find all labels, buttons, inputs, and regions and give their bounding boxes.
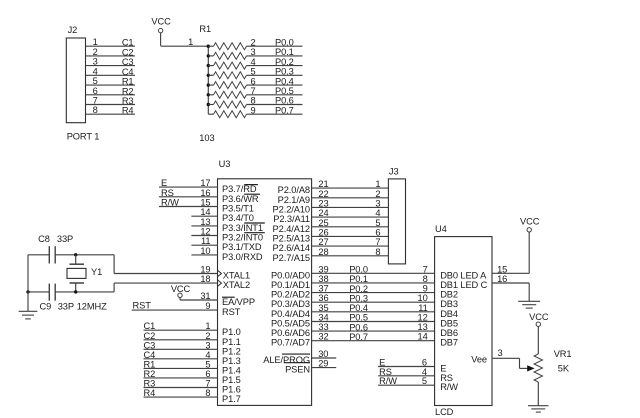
svg-text:5: 5 — [93, 76, 98, 86]
svg-text:P0.3/AD3: P0.3/AD3 — [271, 299, 310, 309]
svg-text:P1.6: P1.6 — [222, 385, 241, 395]
U3 pin 2 P1.1 — [144, 331, 241, 347]
wire J2 pin 8 — [86, 105, 136, 116]
svg-text:26: 26 — [318, 227, 328, 237]
wire left vertical to ground — [27, 255, 29, 311]
svg-text:32: 32 — [318, 332, 328, 342]
svg-text:C3: C3 — [122, 57, 134, 67]
wire U3 pin 39 P0.0/AD0 / net P0.0 to U4 DB0 pin 7 — [271, 264, 435, 280]
wire XTAL bottom net — [26, 290, 114, 293]
svg-text:31: 31 — [200, 291, 210, 301]
svg-text:P0.4: P0.4 — [349, 303, 368, 313]
svg-text:PSEN: PSEN — [285, 365, 310, 375]
wire J2 pin 5 — [86, 76, 136, 87]
resistor R1 element 7 (pin 8) — [208, 96, 302, 108]
svg-text:P0.4/AD4: P0.4/AD4 — [271, 309, 310, 319]
svg-text:28: 28 — [318, 247, 328, 257]
U3 pin 3 P1.2 — [144, 340, 241, 356]
svg-text:P3.0/RXD: P3.0/RXD — [222, 252, 263, 262]
svg-text:13: 13 — [200, 217, 210, 227]
svg-text:DB5: DB5 — [440, 319, 458, 329]
svg-text:4: 4 — [251, 57, 256, 67]
svg-text:13: 13 — [418, 322, 428, 332]
svg-text:R1: R1 — [122, 77, 134, 87]
svg-text:4: 4 — [205, 350, 210, 360]
ground (crystal) — [19, 311, 38, 319]
svg-text:P1.3: P1.3 — [222, 356, 241, 366]
U3 pin 13 P3.3/INT1 — [191, 217, 263, 233]
svg-text:2: 2 — [251, 37, 256, 47]
svg-text:R4: R4 — [144, 388, 156, 398]
wire U3 pin 25 P2.4/A12 to J3 pin 5 — [273, 218, 389, 234]
svg-text:5: 5 — [375, 218, 380, 228]
svg-text:6: 6 — [93, 86, 98, 96]
wire U3 pin 33 P0.6/AD6 / net P0.6 to U4 DB6 pin 13 — [271, 322, 435, 338]
resistor R1 element 1 (pin 2) — [208, 37, 302, 49]
U3 pin 14 P3.4/T0 — [191, 207, 253, 223]
svg-text:P1.4: P1.4 — [222, 365, 241, 375]
svg-text:P0.1/AD1: P0.1/AD1 — [271, 280, 310, 290]
svg-text:12: 12 — [418, 313, 428, 323]
svg-text:9: 9 — [205, 301, 210, 311]
svg-text:5: 5 — [251, 67, 256, 77]
svg-text:P0.3: P0.3 — [349, 293, 368, 303]
IC U4 (LCD) body — [435, 224, 492, 406]
svg-text:3: 3 — [205, 340, 210, 350]
U3 pin 17 P3.7/RD — [159, 178, 257, 194]
svg-text:C4: C4 — [144, 350, 156, 360]
wire VR1 to ground — [537, 382, 539, 406]
U3 pin 31 EA/VPP — [180, 291, 255, 307]
U3 pin 19 XTAL1 — [200, 265, 250, 281]
svg-text:Vee: Vee — [471, 354, 487, 364]
svg-text:LED A: LED A — [460, 270, 487, 280]
svg-text:P2.2/A10: P2.2/A10 — [273, 204, 310, 214]
svg-text:29: 29 — [318, 359, 328, 369]
resistor R1 element 6 (pin 7) — [208, 86, 302, 98]
U3 pin 15 P3.5/T1 — [159, 198, 254, 214]
overline INT0 — [244, 232, 265, 234]
svg-text:P0.3: P0.3 — [275, 67, 294, 77]
wire J2 pin 6 — [86, 86, 136, 97]
svg-text:3: 3 — [498, 348, 503, 358]
svg-text:11: 11 — [418, 303, 427, 313]
svg-text:R/W: R/W — [379, 376, 397, 386]
svg-text:1: 1 — [93, 37, 98, 47]
svg-text:C4: C4 — [122, 67, 134, 77]
svg-text:P3.6/WR: P3.6/WR — [222, 194, 259, 204]
overline PROG — [282, 353, 310, 355]
wire U3 pin 26 P2.5/A13 to J3 pin 6 — [273, 227, 389, 243]
resistor R1 element 5 (pin 6) — [208, 76, 302, 88]
svg-text:3: 3 — [93, 57, 98, 67]
wire net RS to U4 pin 4 — [378, 367, 453, 383]
svg-text:VCC: VCC — [529, 312, 549, 322]
svg-text:38: 38 — [318, 274, 328, 284]
svg-text:P0.1: P0.1 — [275, 47, 294, 57]
wire U3 pin 32 P0.7/AD7 / net P0.7 to U4 DB7 pin 14 — [271, 332, 435, 348]
svg-text:U4: U4 — [435, 224, 447, 234]
svg-text:P1.2: P1.2 — [222, 346, 241, 356]
svg-text:VCC: VCC — [151, 16, 171, 26]
U3 pin 7 P1.6 — [144, 379, 241, 395]
svg-text:35: 35 — [318, 303, 328, 313]
svg-text:11: 11 — [201, 236, 210, 246]
svg-text:P3.7/RD: P3.7/RD — [222, 184, 257, 194]
svg-text:25: 25 — [318, 218, 328, 228]
capacitor C8 33P — [38, 234, 73, 264]
svg-text:R1: R1 — [144, 359, 156, 369]
overline EA — [222, 296, 235, 298]
svg-text:8: 8 — [205, 388, 210, 398]
U3 pin 30 ALE/PROG — [263, 349, 336, 365]
svg-text:J2: J2 — [68, 25, 78, 35]
svg-text:10: 10 — [200, 246, 210, 256]
svg-text:37: 37 — [318, 284, 328, 294]
svg-text:DB4: DB4 — [440, 309, 458, 319]
connector J2 — [66, 25, 85, 123]
wire U4 pin 15 LED A to VCC — [492, 232, 529, 274]
svg-text:P0.2/AD2: P0.2/AD2 — [271, 290, 310, 300]
svg-text:U3: U3 — [219, 159, 231, 169]
svg-text:C8: C8 — [38, 234, 50, 244]
wire U3 pin 36 P0.3/AD3 / net P0.3 to U4 DB3 pin 10 — [271, 293, 435, 309]
wire U3 pin 24 P2.3/A11 to J3 pin 4 — [273, 208, 388, 224]
svg-text:DB2: DB2 — [440, 290, 458, 300]
svg-text:VCC: VCC — [171, 284, 191, 294]
wire U3 pin 38 P0.1/AD1 / net P0.1 to U4 DB1 pin 8 — [271, 274, 435, 290]
svg-text:P0.7: P0.7 — [349, 332, 368, 342]
svg-text:2: 2 — [205, 331, 210, 341]
svg-text:5K: 5K — [558, 364, 570, 374]
svg-text:XTAL1: XTAL1 — [223, 271, 250, 281]
U3 pin 8 P1.7 — [144, 388, 241, 404]
svg-text:8: 8 — [93, 105, 98, 115]
svg-text:R/W: R/W — [161, 198, 179, 208]
wire J2 pin 7 — [86, 96, 136, 107]
wire VCC to R1 pin 1 — [161, 37, 209, 47]
svg-text:LED C: LED C — [460, 280, 487, 290]
resistor R1 element 8 (pin 9) — [208, 105, 302, 117]
svg-text:P0.6: P0.6 — [275, 96, 294, 106]
wire U3 pin 34 P0.5/AD5 / net P0.5 to U4 DB5 pin 12 — [271, 313, 435, 329]
overline WR — [244, 193, 260, 195]
wire U4 pin 16 LED C to ground — [492, 274, 529, 301]
svg-text:1: 1 — [188, 37, 193, 47]
svg-text:P2.1/A9: P2.1/A9 — [278, 195, 310, 205]
svg-text:P0.1: P0.1 — [349, 274, 368, 284]
svg-text:P0.0: P0.0 — [349, 265, 368, 275]
wire U3 pin 21 P2.0/A8 to J3 pin 1 — [278, 179, 389, 195]
svg-text:P1.5: P1.5 — [222, 375, 241, 385]
svg-text:PORT 1: PORT 1 — [67, 132, 100, 142]
wire XTAL1 feed — [114, 255, 217, 274]
wire XTAL2 feed — [114, 283, 217, 292]
svg-text:EA/VPP: EA/VPP — [222, 297, 255, 307]
resistor R1 element 3 (pin 4) — [208, 57, 302, 69]
svg-text:C2: C2 — [122, 47, 134, 57]
svg-text:P0.0/AD0: P0.0/AD0 — [271, 270, 310, 280]
U3 pin 1 P1.0 — [144, 321, 241, 337]
svg-text:33: 33 — [318, 322, 328, 332]
svg-text:C2: C2 — [144, 331, 156, 341]
svg-text:33P: 33P — [57, 234, 73, 244]
node RST — [132, 301, 241, 318]
svg-text:5: 5 — [422, 376, 427, 386]
svg-text:14: 14 — [200, 207, 210, 217]
svg-text:9: 9 — [423, 284, 428, 294]
svg-text:7: 7 — [93, 96, 98, 106]
svg-text:RST: RST — [133, 301, 152, 311]
svg-text:6: 6 — [251, 76, 256, 86]
svg-text:34: 34 — [318, 313, 328, 323]
svg-text:4: 4 — [93, 66, 98, 76]
svg-text:7: 7 — [423, 264, 428, 274]
svg-text:3: 3 — [375, 198, 380, 208]
svg-text:R3: R3 — [144, 379, 156, 389]
wire U3 pin 28 P2.7/A15 to J3 pin 8 — [273, 247, 389, 263]
U3 pin 18 XTAL2 — [200, 274, 250, 290]
svg-text:P0.5: P0.5 — [275, 86, 294, 96]
svg-text:P0.2: P0.2 — [349, 284, 368, 294]
svg-text:R2: R2 — [144, 369, 156, 379]
svg-text:R1: R1 — [199, 24, 211, 34]
svg-text:8: 8 — [423, 274, 428, 284]
svg-text:DB3: DB3 — [440, 299, 458, 309]
svg-text:22: 22 — [318, 189, 328, 199]
wire U3 pin 22 P2.1/A9 to J3 pin 2 — [278, 189, 389, 205]
svg-text:2: 2 — [375, 189, 380, 199]
svg-text:P0.6: P0.6 — [349, 322, 368, 332]
svg-text:C3: C3 — [144, 340, 156, 350]
svg-text:4: 4 — [375, 208, 380, 218]
svg-text:DB0: DB0 — [440, 270, 458, 280]
svg-text:8: 8 — [251, 96, 256, 106]
power VCC (VR1) — [529, 312, 549, 354]
svg-text:E: E — [161, 178, 167, 188]
svg-text:10: 10 — [418, 293, 428, 303]
svg-text:P0.5: P0.5 — [349, 313, 368, 323]
wire U3 pin 23 P2.2/A10 to J3 pin 3 — [273, 198, 389, 214]
svg-text:14: 14 — [418, 332, 428, 342]
resistor R1 element 2 (pin 3) — [208, 47, 302, 59]
svg-text:XTAL2: XTAL2 — [223, 280, 250, 290]
wire U3 pin 27 P2.6/A14 to J3 pin 7 — [273, 237, 389, 253]
svg-text:ALE/PROG: ALE/PROG — [263, 355, 310, 365]
svg-text:39: 39 — [318, 264, 328, 274]
capacitor C9 33P — [40, 284, 108, 312]
svg-text:R/W: R/W — [440, 382, 458, 392]
svg-text:16: 16 — [200, 188, 210, 198]
svg-text:7: 7 — [251, 86, 256, 96]
svg-text:12: 12 — [200, 227, 210, 237]
U3 pin 5 P1.4 — [144, 359, 241, 375]
svg-text:P1.0: P1.0 — [222, 327, 241, 337]
U3 pin 16 P3.6/WR — [159, 188, 259, 204]
wire J2 pin 3 — [86, 57, 136, 68]
ground (LED C) — [518, 301, 540, 308]
svg-text:VCC: VCC — [520, 216, 540, 226]
svg-text:P2.3/A11: P2.3/A11 — [273, 214, 310, 224]
svg-text:P1.1: P1.1 — [222, 337, 241, 347]
svg-text:C1: C1 — [122, 38, 134, 48]
power VCC (EA/VPP) — [171, 284, 191, 300]
svg-text:P3.4/T0: P3.4/T0 — [222, 213, 254, 223]
svg-text:P0.6/AD6: P0.6/AD6 — [271, 328, 310, 338]
wire net E to U4 pin 6 — [378, 358, 446, 374]
svg-text:1: 1 — [205, 321, 210, 331]
svg-text:36: 36 — [318, 293, 328, 303]
svg-text:R2: R2 — [122, 86, 134, 96]
svg-text:P0.7/AD7: P0.7/AD7 — [271, 338, 310, 348]
U3 pin 29 PSEN — [285, 359, 336, 375]
crystal Y1 12MHZ — [67, 255, 102, 292]
svg-text:5: 5 — [205, 359, 210, 369]
svg-text:P3.5/T1: P3.5/T1 — [222, 204, 254, 214]
svg-text:RS: RS — [161, 188, 174, 198]
svg-text:103: 103 — [199, 133, 214, 143]
wire wiper arrow — [520, 365, 535, 371]
svg-text:P0.0: P0.0 — [275, 37, 294, 47]
svg-text:6: 6 — [205, 369, 210, 379]
ground (VR1) — [528, 406, 549, 412]
svg-text:DB6: DB6 — [440, 328, 458, 338]
power VCC (LED A) — [520, 216, 540, 232]
svg-text:P3.2/INT0: P3.2/INT0 — [222, 233, 263, 243]
svg-text:12MHZ: 12MHZ — [77, 302, 107, 312]
svg-text:7: 7 — [205, 379, 210, 389]
svg-text:23: 23 — [318, 198, 328, 208]
svg-text:P3.1/TXD: P3.1/TXD — [222, 242, 262, 252]
svg-text:P2.6/A14: P2.6/A14 — [273, 243, 310, 253]
svg-text:21: 21 — [318, 179, 328, 189]
svg-text:P2.4/A12: P2.4/A12 — [273, 224, 310, 234]
svg-text:27: 27 — [318, 237, 328, 247]
svg-text:P2.5/A13: P2.5/A13 — [273, 233, 310, 243]
svg-text:P1.7: P1.7 — [222, 394, 241, 404]
U4 pin 3 Vee — [471, 348, 519, 369]
svg-text:R3: R3 — [122, 96, 134, 106]
svg-text:2: 2 — [93, 47, 98, 57]
svg-text:6: 6 — [375, 227, 380, 237]
svg-text:DB7: DB7 — [440, 338, 458, 348]
U3 pin 12 P3.2/INT0 — [191, 227, 263, 243]
wire U3 pin 37 P0.2/AD2 / net P0.2 to U4 DB2 pin 9 — [271, 284, 435, 300]
svg-text:33P: 33P — [58, 302, 74, 312]
svg-text:9: 9 — [251, 105, 256, 115]
wire J2 pin 4 — [86, 66, 136, 77]
svg-text:17: 17 — [200, 178, 210, 188]
wire U3 pin 35 P0.4/AD4 / net P0.4 to U4 DB4 pin 11 — [271, 303, 435, 319]
svg-text:15: 15 — [200, 198, 210, 208]
svg-text:P2.7/A15: P2.7/A15 — [273, 253, 310, 263]
svg-text:P0.4: P0.4 — [275, 76, 294, 86]
IC U3 (8051 MCU) body — [218, 159, 312, 405]
svg-text:3: 3 — [251, 47, 256, 57]
svg-text:Y1: Y1 — [91, 267, 102, 277]
svg-text:7: 7 — [375, 237, 380, 247]
svg-text:RST: RST — [222, 307, 241, 317]
svg-text:8: 8 — [375, 247, 380, 257]
overline RD — [244, 184, 258, 186]
svg-text:J3: J3 — [389, 167, 399, 177]
connector J3 — [388, 167, 405, 264]
wire J2 pin 1 — [86, 37, 136, 48]
wire R1 common bus — [207, 45, 210, 115]
svg-text:R4: R4 — [122, 106, 134, 116]
svg-text:C9: C9 — [40, 302, 52, 312]
U3 pin 4 P1.3 — [144, 350, 241, 366]
svg-text:P0.7: P0.7 — [275, 105, 294, 115]
svg-text:VR1: VR1 — [554, 349, 572, 359]
svg-text:LCD: LCD — [435, 407, 454, 417]
U3 pin 6 P1.5 — [144, 369, 241, 385]
power VCC (R1 pull-up) — [151, 16, 171, 45]
svg-text:C1: C1 — [144, 321, 156, 331]
svg-text:P2.0/A8: P2.0/A8 — [278, 185, 310, 195]
svg-text:DB1: DB1 — [440, 280, 458, 290]
svg-text:P0.5/AD5: P0.5/AD5 — [271, 319, 310, 329]
svg-text:P0.2: P0.2 — [275, 57, 294, 67]
wire net R/W to U4 pin 5 — [378, 376, 458, 392]
svg-text:30: 30 — [318, 349, 328, 359]
svg-text:1: 1 — [375, 179, 380, 189]
overline PSEN — [284, 362, 310, 364]
U3 pin 11 P3.1/TXD — [191, 236, 261, 252]
potentiometer VR1 5K — [534, 349, 571, 382]
svg-text:P3.3/INT1: P3.3/INT1 — [222, 223, 263, 233]
overline INT1 — [244, 222, 265, 224]
wire XTAL top net — [28, 253, 114, 256]
wire J2 pin 2 — [86, 47, 136, 58]
svg-text:24: 24 — [318, 208, 328, 218]
resistor R1 element 4 (pin 5) — [208, 67, 302, 79]
U3 pin 10 P3.0/RXD — [191, 246, 263, 262]
